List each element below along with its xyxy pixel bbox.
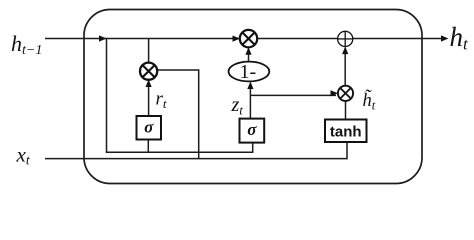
svg-text:rt: rt bbox=[156, 89, 167, 112]
adder (plus) circle on top line bbox=[338, 31, 353, 46]
svg-text:ht: ht bbox=[450, 22, 470, 54]
multiplier (reset gate) circle with X bbox=[140, 63, 157, 80]
wire: candidate multiplier up into plus bbox=[344, 48, 346, 86]
sigma box (reset gate) bbox=[137, 116, 162, 140]
svg-text:σ: σ bbox=[144, 117, 154, 136]
svg-text:h̃t: h̃t bbox=[363, 89, 376, 112]
wire: x_t input line across bottom into tanh stub bbox=[45, 142, 347, 159]
svg-text:1-: 1- bbox=[239, 61, 256, 83]
svg-text:tanh: tanh bbox=[330, 123, 362, 140]
wire: bottom h line (line A) from drop to sigma-z box bbox=[106, 143, 253, 153]
multiplier (candidate) circle with X bbox=[338, 86, 353, 101]
wire: z branch right into candidate multiplier bbox=[250, 94, 336, 96]
wire: h_{t-1} branch dropping down at x=106.5 bbox=[106, 39, 108, 153]
arrowhead: on h line before branch junction bbox=[99, 35, 107, 41]
tanh box bbox=[325, 120, 367, 143]
svg-text:ht−1: ht−1 bbox=[11, 31, 42, 58]
arrowhead: from 1- up into top multiplier bbox=[245, 47, 251, 55]
wire: top line drop into reset multiplier bbox=[148, 39, 150, 65]
svg-text:xt: xt bbox=[16, 143, 31, 168]
arrowhead: from sigma-r up into reset multiplier bbox=[146, 80, 152, 88]
wire: tanh output up into candidate multiplier bbox=[345, 101, 347, 120]
wire: z vertical from sigma-z up to 1- ellipse bbox=[249, 83, 251, 119]
arrowhead: from candidate multiplier up into plus bbox=[342, 47, 348, 55]
sigma box (update gate) bbox=[240, 119, 265, 143]
svg-text:σ: σ bbox=[247, 120, 257, 139]
1- ellipse bbox=[229, 61, 270, 83]
svg-text:zt: zt bbox=[231, 94, 244, 118]
wire: reset multiplier output right then down to x_t line bbox=[157, 70, 199, 159]
multiplier (update gate, top line) circle with X bbox=[240, 30, 257, 47]
wire: h_{t-1} main horizontal line to h_t bbox=[45, 38, 446, 40]
arrowhead: into top multiplier from left bbox=[233, 36, 241, 42]
wire: sigma-r up-arrow line into reset multiplier bbox=[148, 81, 150, 117]
wire: 1- ellipse up to top multiplier bbox=[248, 49, 250, 62]
wire: sigma-r bottom stub to line A bbox=[147, 140, 149, 153]
arrowhead: z branch right into candidate multiplier bbox=[331, 90, 339, 96]
arrowhead: h_t output at right bbox=[441, 35, 449, 41]
GRU cell boundary (rounded rectangle) bbox=[84, 10, 422, 184]
arrowhead: from sigma-z up into 1- ellipse bbox=[247, 82, 253, 90]
